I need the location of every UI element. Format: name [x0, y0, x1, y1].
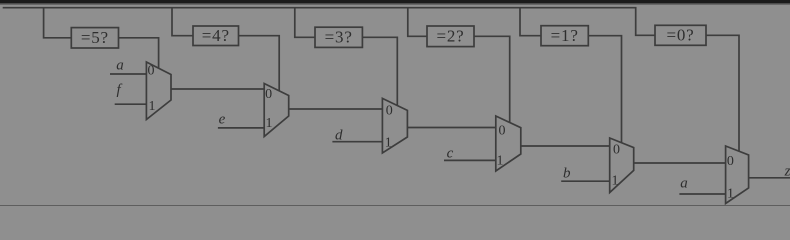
- wire top bus: [3, 8, 655, 36]
- comparator =0? box: [655, 25, 706, 45]
- wire U3 output to U4 input 0: [407, 127, 495, 129]
- comparator =4? box: [193, 26, 239, 46]
- svg-text:e: e: [219, 112, 226, 128]
- wire U2 output to U3 input 0: [289, 108, 383, 110]
- wire U4 output to U5 input 0: [521, 145, 610, 147]
- wire U5 output to U6 input 0: [634, 162, 726, 164]
- comparator =2? box: [427, 26, 474, 47]
- svg-text:d: d: [335, 128, 343, 144]
- mux U6: [726, 146, 749, 204]
- svg-text:b: b: [563, 165, 571, 181]
- svg-text:1: 1: [149, 99, 156, 114]
- wire bus drop to =1?: [520, 8, 541, 36]
- mux U5: [610, 138, 634, 193]
- wire bus drop to =5?: [44, 8, 72, 38]
- wire input d to U3 input 1: [332, 141, 382, 143]
- svg-text:0: 0: [613, 143, 620, 158]
- wire bus drop to =4?: [172, 8, 193, 36]
- svg-text:z: z: [784, 163, 790, 179]
- wire input e to U2 input 1: [218, 127, 264, 129]
- wire input a to U6 input 1: [679, 193, 725, 195]
- svg-text:1: 1: [612, 174, 619, 189]
- wire U6 output to node z: [749, 177, 790, 179]
- wire bus drop to =2?: [408, 8, 427, 37]
- wire =1? output to U5 select: [588, 36, 621, 143]
- mux U3: [382, 98, 407, 153]
- mux U4: [496, 116, 521, 171]
- bottom edge dark line: [0, 205, 790, 206]
- svg-text:0: 0: [265, 87, 272, 102]
- mux U1: [146, 62, 171, 120]
- wire input b to U5 input 1: [561, 180, 610, 182]
- wire =5? output to U1 select: [119, 38, 159, 69]
- wire =3? output to U3 select: [362, 37, 397, 105]
- wire input f to U1 input 1: [115, 103, 147, 105]
- comparator =1? box: [541, 26, 588, 46]
- wire =2? output to U4 select: [474, 36, 510, 122]
- comparator =3? box: [315, 27, 362, 47]
- svg-text:1: 1: [266, 116, 273, 131]
- svg-text:=3?: =3?: [325, 28, 353, 47]
- svg-text:1: 1: [385, 135, 392, 150]
- wire bus drop to =3?: [295, 8, 315, 38]
- svg-text:0: 0: [386, 103, 393, 118]
- top black bar: [0, 0, 790, 5]
- mux U2: [264, 84, 289, 137]
- wire =0? output to U6 select: [706, 35, 739, 151]
- svg-text:a: a: [116, 58, 124, 74]
- svg-text:0: 0: [148, 64, 155, 79]
- svg-text:1: 1: [727, 187, 734, 202]
- wire input c to U4 input 1: [444, 159, 496, 161]
- wire U1 output to U2 input 0: [171, 88, 264, 90]
- svg-text:a: a: [680, 176, 688, 192]
- svg-text:=4?: =4?: [202, 26, 230, 45]
- svg-text:=2?: =2?: [436, 27, 464, 46]
- svg-text:0: 0: [499, 124, 506, 139]
- svg-text:=0?: =0?: [666, 26, 694, 45]
- svg-text:0: 0: [727, 154, 734, 169]
- svg-text:=1?: =1?: [551, 26, 579, 45]
- svg-text:1: 1: [497, 154, 504, 169]
- wire input a to U1 input 0: [110, 73, 146, 75]
- comparator =5? box: [71, 28, 118, 48]
- wire =4? output to U2 select: [239, 36, 280, 91]
- svg-text:=5?: =5?: [81, 28, 109, 47]
- svg-text:c: c: [447, 146, 454, 162]
